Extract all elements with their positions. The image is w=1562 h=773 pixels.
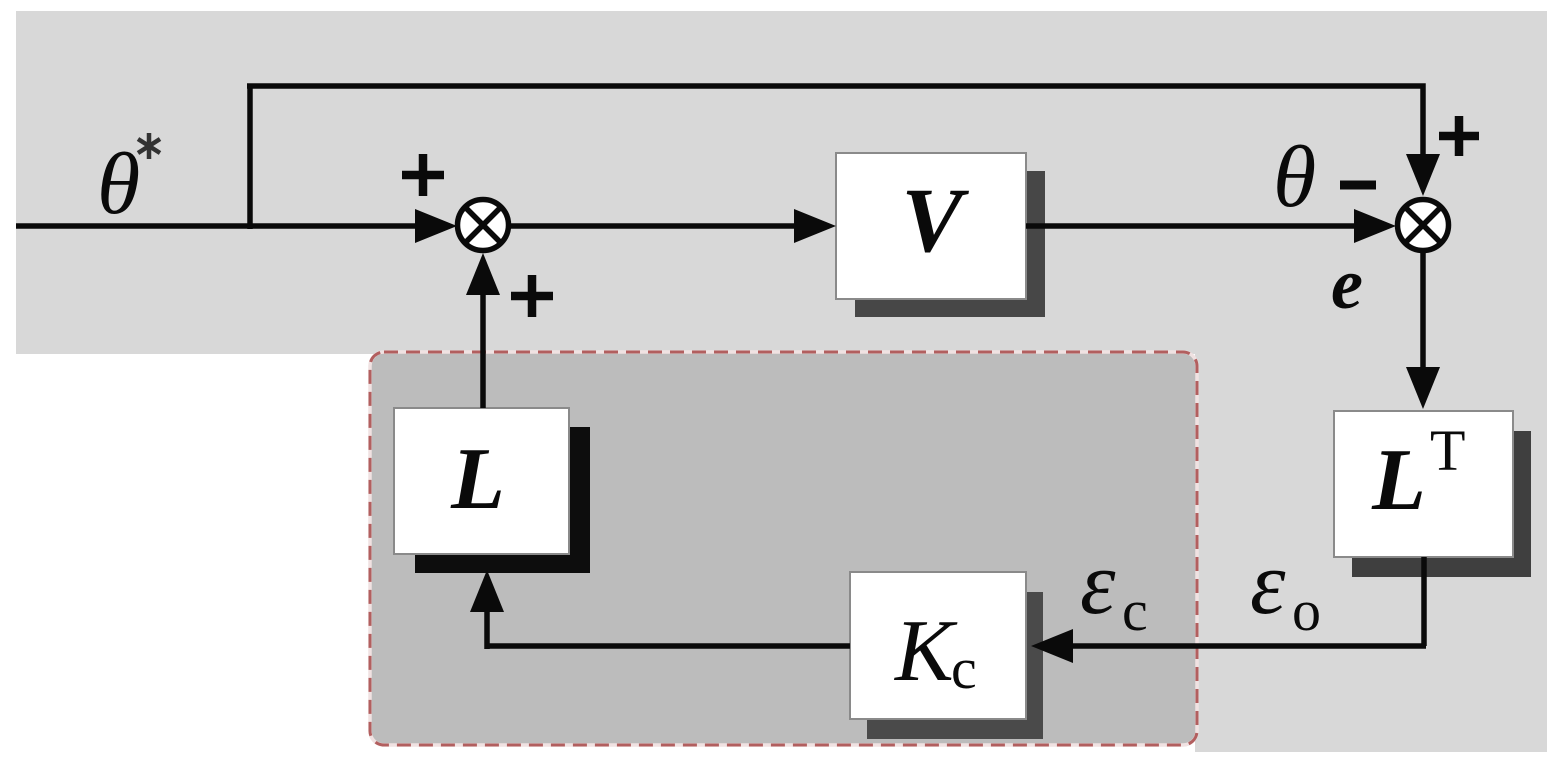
block V shadow: [855, 171, 1045, 317]
block L: [394, 408, 569, 554]
wire V to summer S2: [1026, 223, 1360, 229]
wire L top to summer S1: [480, 292, 486, 408]
svg-text:T: T: [1430, 418, 1465, 483]
svg-text:L: L: [1371, 432, 1426, 529]
arrow into summer S1 bottom: [466, 253, 500, 295]
block Kc shadow: [867, 592, 1043, 739]
arrow into V: [794, 209, 836, 243]
wire summer S2 down to LT: [1420, 253, 1426, 372]
svg-text:K: K: [893, 603, 958, 700]
plus sign at summer S1 input: [402, 154, 444, 196]
block Kc: [850, 572, 1026, 719]
inner controller panel (dashed red rounded box): [370, 352, 1197, 745]
wire feedback top: [247, 86, 1423, 160]
block LT: [1334, 411, 1513, 557]
plus sign at summer S2 top input: [1439, 116, 1479, 156]
arrow into Kc: [1031, 629, 1073, 663]
arrow down into summer S2: [1406, 154, 1440, 196]
svg-text:ε: ε: [1080, 534, 1116, 633]
wire Kc to left elbow: [487, 643, 850, 649]
block V: [836, 153, 1026, 299]
svg-text:c: c: [1122, 578, 1148, 643]
svg-text:θ: θ: [1273, 129, 1316, 226]
svg-text:ε: ε: [1250, 534, 1286, 633]
svg-text:V: V: [901, 169, 969, 271]
wire LT down: [1421, 557, 1427, 646]
arrow into summer S2 left: [1354, 209, 1396, 243]
wire to Kc: [1066, 643, 1426, 649]
summing junction S2: [1398, 200, 1449, 251]
arrow into summer S1: [415, 209, 457, 243]
svg-text:e: e: [1331, 244, 1363, 324]
plus sign at summer S1 bottom input: [511, 275, 553, 317]
minus sign at summer S2 left input: [1340, 181, 1376, 190]
block LT shadow: [1352, 431, 1531, 577]
svg-text:θ: θ: [97, 136, 140, 233]
svg-text:c: c: [951, 636, 977, 701]
wire up to L: [484, 608, 490, 649]
summing junction S1: [458, 200, 509, 251]
arrow into L bottom: [470, 570, 504, 612]
wire branch up at node: [247, 86, 253, 229]
svg-text:o: o: [1292, 578, 1321, 643]
block L shadow: [415, 427, 590, 573]
arrow into LT: [1406, 367, 1440, 409]
wire input theta*: [16, 223, 425, 229]
svg-text:L: L: [450, 431, 505, 528]
wire summer S1 to V: [511, 223, 800, 229]
